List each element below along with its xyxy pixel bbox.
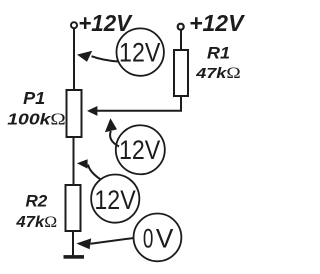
svg-text:12V: 12V	[119, 38, 161, 68]
potentiometer P1 wiper arrowhead	[87, 106, 97, 116]
wire from left +12V terminal down to P1 top	[73, 28, 75, 90]
supply label +12V right	[189, 10, 246, 36]
value 47k ohm R2	[15, 213, 57, 231]
ground symbol	[64, 255, 85, 259]
meter bubble 12V middle	[116, 125, 165, 174]
meter bubble 12V lower	[91, 175, 139, 223]
arrow from lower 12V bubble to P1/R2 node	[88, 165, 101, 180]
value 100k ohm	[7, 110, 66, 129]
svg-text:12V: 12V	[119, 135, 161, 165]
meter bubble 12V top	[117, 28, 164, 75]
svg-text:12V: 12V	[94, 185, 136, 215]
value 47k ohm R1	[195, 64, 241, 82]
svg-text:R2: R2	[26, 192, 48, 211]
wire from R1 bottom down and left to P1 wiper	[97, 96, 181, 111]
meter bubble 0V	[134, 214, 182, 262]
svg-text:47kΩ: 47kΩ	[15, 213, 57, 231]
svg-text:+12V: +12V	[189, 10, 246, 36]
svg-text:47kΩ: 47kΩ	[195, 64, 241, 82]
terminal node left +12V	[71, 22, 77, 28]
wire from right +12V terminal down to R1 top	[180, 30, 182, 50]
svg-text:100kΩ: 100kΩ	[7, 110, 66, 129]
supply label +12V left	[78, 10, 133, 37]
wire from P1 bottom to R2 top	[73, 137, 75, 185]
label P1	[23, 88, 45, 108]
terminal node right +12V	[178, 24, 184, 30]
arrow from 0V bubble to ground node	[91, 238, 134, 244]
svg-text:V: V	[156, 223, 174, 253]
svg-text:0: 0	[143, 223, 154, 253]
svg-text:+12V: +12V	[78, 10, 133, 37]
label R1	[207, 43, 230, 62]
resistor R2 body	[66, 185, 81, 231]
label R2	[26, 192, 48, 211]
arrow from middle 12V bubble to wiper wire	[110, 131, 119, 147]
svg-text:R1: R1	[207, 43, 230, 62]
wire from R2 bottom to ground	[72, 231, 74, 255]
potentiometer P1 body	[67, 90, 82, 137]
svg-text:P1: P1	[23, 88, 45, 108]
arrow from top 12V bubble to +12V rail	[92, 56, 119, 61]
resistor R1 body	[174, 50, 188, 96]
